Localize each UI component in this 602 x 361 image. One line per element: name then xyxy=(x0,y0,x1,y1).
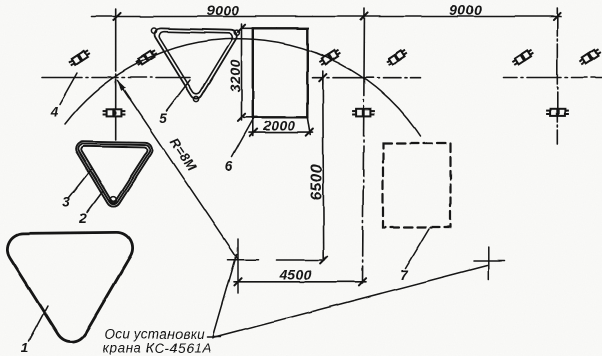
svg-text:4: 4 xyxy=(49,104,58,119)
svg-text:2000: 2000 xyxy=(262,118,296,134)
svg-text:4500: 4500 xyxy=(279,267,313,283)
svg-text:6: 6 xyxy=(225,159,233,174)
svg-text:2: 2 xyxy=(78,211,87,226)
svg-text:9000: 9000 xyxy=(450,2,483,18)
svg-text:3200: 3200 xyxy=(227,59,243,92)
svg-text:Оси установки: Оси установки xyxy=(105,327,206,342)
svg-text:1: 1 xyxy=(21,340,29,355)
svg-text:5: 5 xyxy=(159,111,167,126)
svg-text:9000: 9000 xyxy=(207,3,240,19)
svg-text:6500: 6500 xyxy=(309,164,326,200)
svg-text:3: 3 xyxy=(62,195,70,210)
svg-text:крана КС-4561А: крана КС-4561А xyxy=(103,341,213,356)
